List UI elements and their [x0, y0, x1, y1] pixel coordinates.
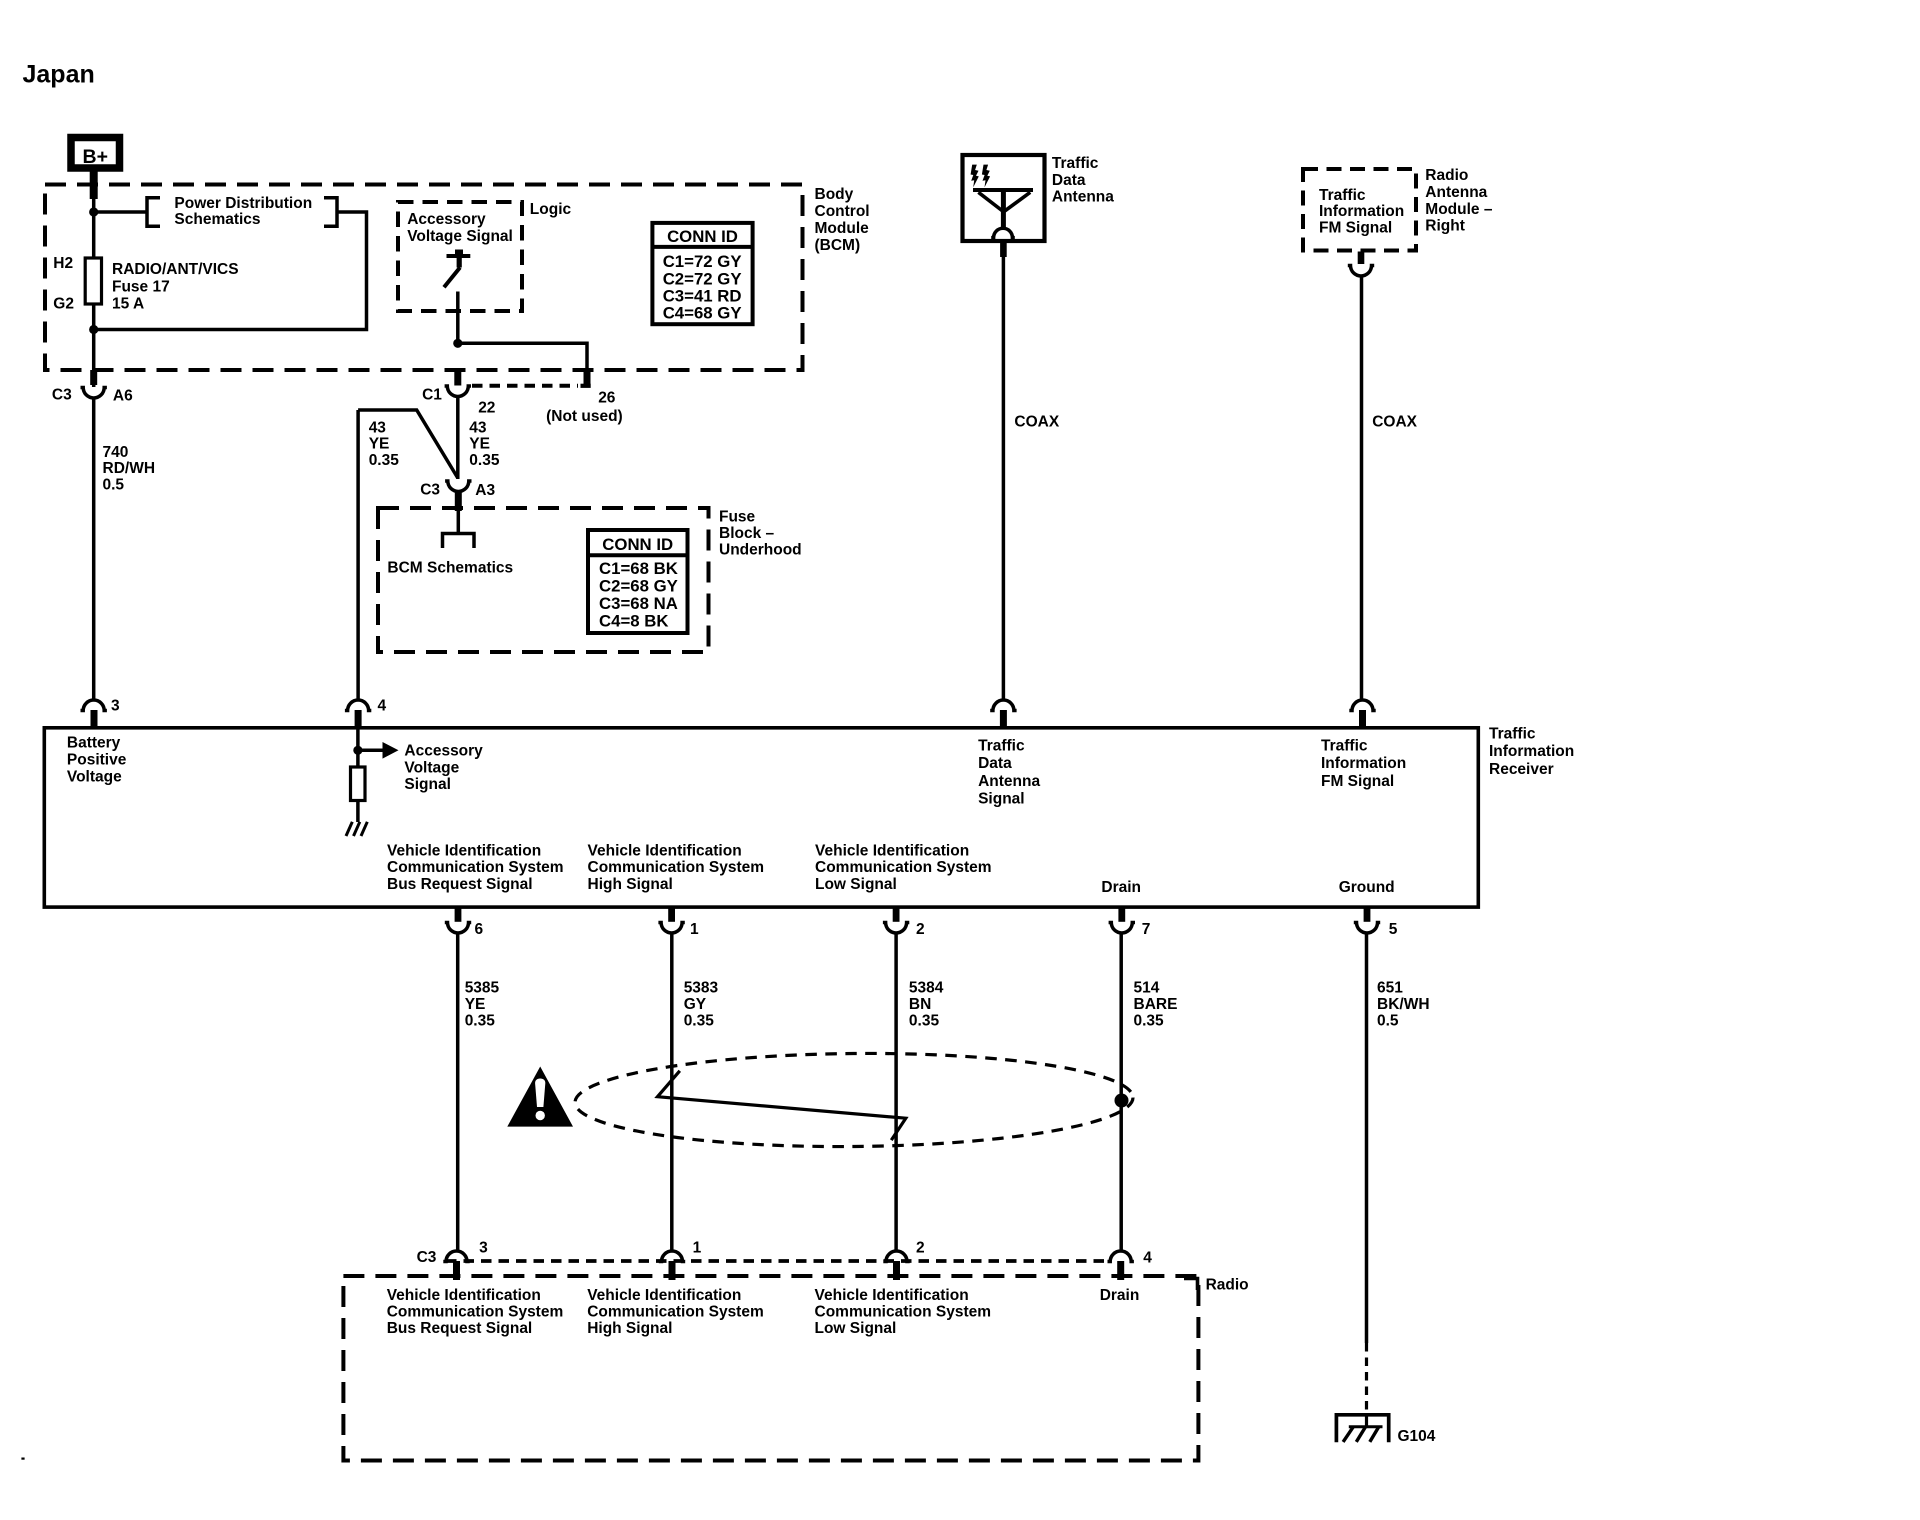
svg-text:26: 26	[598, 389, 616, 406]
receiver antenna pin dome	[990, 700, 1016, 711]
wire ground upper	[1365, 932, 1369, 1343]
fuse RADIO/ANT/VICS Fuse 17 15A	[85, 258, 101, 304]
antenna symbol	[973, 190, 1033, 238]
wire coax right	[1360, 277, 1364, 701]
wire low signal	[894, 932, 898, 1250]
node junction dot at logic output	[453, 339, 462, 348]
svg-text:COAX: COAX	[1014, 413, 1059, 430]
node drain splice dot	[1115, 1094, 1129, 1108]
wire bus request signal	[456, 932, 460, 1250]
logic switch dashed box Accessory Voltage Signal	[398, 202, 522, 311]
svg-text:COAX: COAX	[1372, 413, 1417, 430]
receiver pin 6 cup	[445, 923, 471, 934]
wire resistor to ground	[356, 801, 360, 823]
switch S top bar	[447, 254, 471, 258]
svg-text:A3: A3	[475, 482, 495, 499]
terminator fork symbol	[443, 534, 475, 549]
antenna lightning bolt right	[982, 165, 990, 188]
warning triangle	[507, 1067, 573, 1127]
connector C1 22 cup	[445, 386, 471, 397]
switch S blade	[444, 268, 460, 288]
wire pin4 to resistor	[356, 729, 360, 767]
svg-text:B+: B+	[83, 146, 108, 168]
svg-text:3: 3	[479, 1240, 488, 1257]
wire ground dashed lower	[1365, 1343, 1368, 1414]
svg-text:BatteryPositiveVoltage: BatteryPositiveVoltage	[67, 735, 127, 786]
radio pin 4 dome	[1108, 1251, 1134, 1262]
arrow head accessory	[383, 742, 399, 759]
connector pin 26 stub	[584, 369, 591, 384]
node junction dot lower	[89, 325, 98, 334]
receiver pin 1 stub	[668, 906, 675, 922]
receiver box Traffic Information Receiver	[44, 728, 1478, 907]
connector C1 22 pin stub	[454, 369, 461, 386]
radio pin 1 stub	[669, 1261, 676, 1280]
radio pin 3 stub	[453, 1261, 460, 1280]
receiver pin 2 cup	[883, 923, 909, 934]
receiver pin 5 cup	[1354, 923, 1380, 934]
switch S stem	[457, 256, 462, 268]
radio antenna module dashed box	[1303, 169, 1416, 251]
svg-text:3: 3	[111, 698, 120, 715]
radio pin 4 stub	[1117, 1261, 1124, 1280]
receiver pin 2 stub	[893, 906, 900, 922]
svg-text:Drain: Drain	[1100, 1287, 1140, 1304]
wire coax left	[1002, 257, 1006, 700]
label Radio corner bracket	[1184, 1279, 1198, 1291]
radio pin 3 dome	[443, 1251, 469, 1262]
receiver FM pin stub	[1359, 710, 1366, 729]
connector C3 A6 cup	[81, 388, 107, 398]
twisted pair arrow	[658, 1071, 906, 1140]
receiver pin 7 stub	[1118, 906, 1125, 922]
wire from bracket right down and back to fuse bottom	[94, 212, 367, 330]
receiver pin 4 stub	[355, 710, 362, 729]
stray mark bottom left	[21, 1458, 24, 1460]
wire dashed radio connector line	[446, 1259, 1108, 1263]
wire B+ pin	[90, 171, 98, 199]
receiver pin 7 cup	[1109, 923, 1135, 934]
svg-text:C3: C3	[52, 387, 72, 404]
svg-text:2: 2	[916, 921, 925, 938]
svg-text:1: 1	[690, 921, 699, 938]
svg-text:2: 2	[916, 1240, 925, 1257]
svg-text:C1=72 GYC2=72 GYC3=41 RDC4=68: C1=72 GYC2=72 GYC3=41 RDC4=68 GY	[663, 252, 742, 322]
node accessory junction dot	[353, 746, 362, 755]
antenna lightning bolt left	[971, 165, 979, 188]
receiver pin 6 stub	[455, 906, 462, 922]
svg-text:Logic: Logic	[530, 201, 572, 218]
svg-text:BCM Schematics: BCM Schematics	[387, 559, 513, 576]
wire inside fuse block	[457, 511, 461, 534]
connector C3 A3 pin stub into fuse block	[455, 492, 462, 511]
receiver antenna pin stub	[1000, 710, 1007, 729]
wire junction to pin 26	[458, 343, 587, 371]
svg-text:A6: A6	[113, 388, 133, 405]
wire vertical down to receiver pin 4	[356, 410, 360, 700]
svg-text:4: 4	[378, 698, 387, 715]
table CONN ID fuse block	[588, 530, 688, 633]
connector C3 A6 pin stub	[90, 370, 97, 385]
wire dashed link C1 to 26	[472, 384, 578, 388]
svg-text:CONN ID: CONN ID	[602, 535, 673, 554]
svg-text:G104: G104	[1398, 1428, 1436, 1445]
svg-text:4: 4	[1143, 1250, 1152, 1267]
svg-text:C1=68 BKC2=68 GYC3=68 NAC4=8 B: C1=68 BKC2=68 GYC3=68 NAC4=8 BK	[599, 559, 678, 631]
svg-text:5: 5	[1389, 921, 1398, 938]
svg-text:CONN ID: CONN ID	[667, 227, 738, 246]
twisted pair dashed ellipse	[575, 1051, 1134, 1149]
receiver pin 3 dome	[81, 700, 107, 710]
traffic data antenna box	[963, 155, 1045, 241]
wire drain	[1119, 932, 1123, 1250]
wire branch horizontal and diagonal to connector	[358, 410, 457, 478]
radio pin 2 stub	[893, 1261, 900, 1280]
wire high signal	[670, 932, 674, 1250]
ground internal hatch	[346, 822, 367, 836]
ground symbol G104	[1336, 1413, 1388, 1442]
B+ battery terminal box	[71, 138, 120, 169]
radio antenna module cup	[1348, 266, 1374, 277]
svg-text:Ground: Ground	[1339, 879, 1395, 896]
svg-text:6: 6	[475, 921, 484, 938]
svg-text:Drain: Drain	[1101, 879, 1141, 896]
wire switch to junction	[456, 292, 460, 344]
BCM dashed box	[45, 185, 803, 371]
receiver pin 3 stub	[91, 710, 98, 729]
receiver pin 1 cup	[658, 923, 684, 933]
radio pin 1 dome	[659, 1251, 685, 1262]
radio dashed box	[343, 1276, 1198, 1461]
svg-text:22: 22	[478, 400, 495, 417]
wire B+ down to connector C3/A6	[92, 190, 96, 387]
connector pin 26 foot	[581, 384, 591, 388]
wire C1 down to C3/A3	[456, 397, 460, 479]
svg-text:Radio: Radio	[1206, 1277, 1249, 1294]
svg-text:C1: C1	[422, 387, 442, 404]
bracket right ]	[324, 198, 337, 227]
svg-text:(Not used): (Not used)	[546, 408, 623, 425]
receiver FM pin dome	[1349, 700, 1375, 711]
connector C3 A3 cup	[445, 481, 471, 492]
svg-text:1: 1	[693, 1240, 702, 1257]
switch S contact nub	[455, 250, 463, 255]
wire 740 RD/WH down to receiver pin 3	[92, 397, 96, 700]
fuse block dashed box	[378, 508, 709, 652]
svg-text:7: 7	[1142, 921, 1151, 938]
svg-text:H2: H2	[53, 255, 73, 272]
svg-text:Japan: Japan	[23, 60, 95, 88]
resistor internal	[351, 767, 366, 801]
bracket left [	[147, 198, 160, 227]
wire accessory arrow line	[358, 749, 383, 753]
antenna pin stub	[1000, 241, 1007, 257]
node junction dot upper	[89, 207, 98, 216]
table CONN ID BCM	[652, 223, 752, 324]
svg-text:C3: C3	[417, 1249, 437, 1266]
radio antenna module pin stub	[1358, 252, 1365, 265]
svg-text:G2: G2	[53, 295, 74, 312]
receiver pin 4 dome	[345, 700, 371, 711]
receiver pin 5 stub	[1364, 906, 1371, 922]
wire to power distribution bracket	[94, 210, 147, 214]
radio pin 2 dome	[883, 1251, 909, 1262]
svg-text:C3: C3	[420, 481, 440, 498]
